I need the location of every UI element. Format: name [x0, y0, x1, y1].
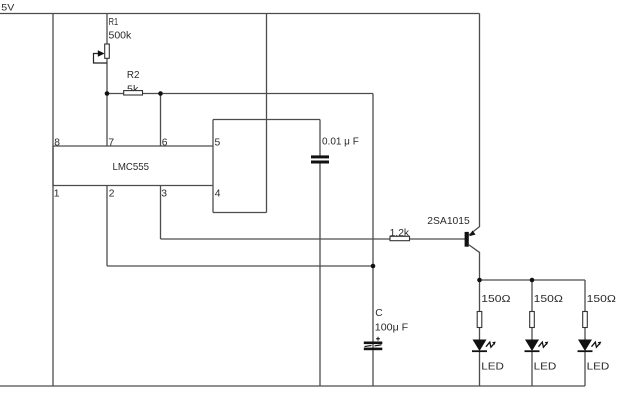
LED D3 emission arrow [592, 342, 600, 347]
wire: Q1 collector down to LED rail [479, 253, 481, 281]
svg-text:LED: LED [587, 362, 610, 373]
svg-text:C: C [375, 308, 383, 319]
wire: loop top horizontal to 0.01uF [213, 119, 320, 121]
wire: 0.01uF bottom lead to ground [319, 164, 321, 387]
wire: ground bottom rail [0, 385, 585, 387]
svg-text:4: 4 [215, 188, 221, 199]
svg-text:LED: LED [481, 362, 504, 373]
wire: col1 resistor to LED [479, 328, 481, 340]
resistor 150ohm col2 body [530, 312, 535, 328]
svg-text:3: 3 [161, 188, 167, 199]
wire: pin 2 horizontal to C node [107, 265, 373, 267]
junction dot pin6/R2 [158, 91, 163, 96]
LED D1 emission arrow [486, 342, 494, 347]
svg-text:150Ω: 150Ω [534, 294, 564, 305]
wire: C node vertical down to 100uF cap [372, 94, 374, 387]
svg-text:0.01 μ F: 0.01 μ F [322, 136, 359, 147]
wire: R2 net horizontal pin7 to C node [107, 93, 373, 95]
R1 wiper arrow [94, 54, 107, 64]
resistor R1 body [105, 44, 110, 58]
wire: LED rail horizontal [480, 279, 586, 281]
svg-text:150Ω: 150Ω [587, 294, 617, 305]
svg-text:5V: 5V [1, 3, 15, 13]
junction dot pin2/C node [371, 264, 376, 269]
wire: pin 6 vertical [160, 94, 162, 147]
svg-text:R2: R2 [127, 70, 140, 81]
wire: pin5/pin4 vertical [212, 120, 214, 213]
wire: +5V top rail [0, 13, 480, 15]
wire: 5V down to loop bottom [266, 14, 268, 213]
LED D1 triangle and bar [473, 340, 487, 352]
wire: pin 3 vertical [160, 186, 162, 240]
svg-text:8: 8 [54, 138, 60, 149]
LED D3 triangle and bar [578, 340, 592, 352]
wire: 5V to pin 8 / IC left edge / pin 1 to ground [52, 14, 54, 387]
wire: 5V to R1 top [106, 14, 108, 45]
svg-text:6: 6 [162, 138, 168, 149]
svg-text:500k: 500k [109, 30, 133, 41]
junction dot pin7/R1/R2 [105, 91, 110, 96]
wire: R1 bottom to pin 7 [106, 58, 108, 146]
resistor 150ohm col1 body [477, 312, 482, 328]
wire: 1.2k resistor to Q1 base [410, 238, 466, 240]
junction dot LED rail col2 [530, 278, 535, 283]
svg-text:7: 7 [108, 138, 114, 149]
wire: col3 resistor to LED [584, 328, 586, 340]
wire: LED column 2 top [531, 280, 533, 312]
wire: pin 2 vertical [106, 186, 108, 267]
svg-text:LMC555: LMC555 [113, 162, 150, 173]
resistor 1.2k body [390, 236, 410, 240]
wire: LED column 3 top [584, 280, 586, 312]
svg-text:2SA1015: 2SA1015 [427, 216, 470, 227]
wire: 5V down to Q1 emitter [479, 14, 481, 228]
transistor Q1 base bar [465, 232, 469, 247]
wire: col2 resistor to LED [531, 328, 533, 340]
svg-text:150Ω: 150Ω [481, 294, 511, 305]
capacitor 0.01uF plates [311, 155, 329, 158]
wire: col3 LED to ground [584, 352, 586, 386]
svg-text:5: 5 [215, 137, 221, 148]
wire: 0.01uF top lead [319, 120, 321, 156]
transistor Q1 emitter diagonal with arrow [469, 227, 480, 236]
op-amp U1 LMC555 outline [53, 146, 213, 186]
wire: pin 3 output to 1.2k resistor [161, 238, 391, 240]
LED D2 emission arrow [539, 342, 547, 347]
svg-text:100μ F: 100μ F [375, 322, 408, 333]
junction dot collector/LED rail [477, 278, 482, 283]
LED D2 triangle and bar [525, 340, 539, 352]
svg-text:2: 2 [109, 188, 115, 199]
svg-text:1: 1 [54, 188, 60, 199]
resistor R2 body [124, 91, 143, 95]
svg-text:LED: LED [534, 362, 557, 373]
resistor 150ohm col3 body [583, 312, 588, 328]
wire: LED column 1 top [479, 280, 481, 312]
capacitor C 100uF polarity plus [376, 337, 380, 341]
transistor Q1 collector diagonal [469, 245, 480, 253]
capacitor C 100uF plates [364, 342, 383, 345]
wire: loop bottom horizontal [213, 212, 267, 214]
wire: col2 LED to ground [531, 352, 533, 386]
svg-text:R1: R1 [109, 17, 119, 28]
wire: col1 LED to ground [479, 352, 481, 386]
